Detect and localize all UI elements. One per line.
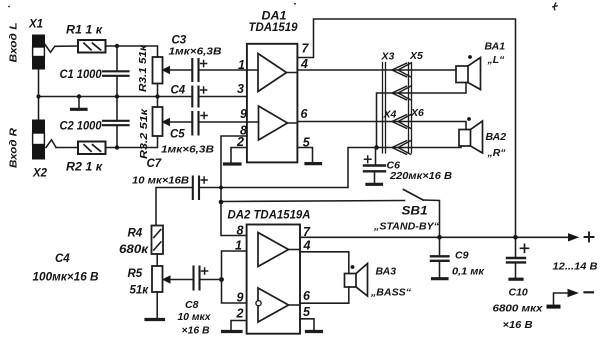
svg-text:2: 2 [236,307,244,321]
node supply vertical rail [513,235,518,240]
svg-text:С8: С8 [185,299,199,311]
resistor R1 [78,40,106,53]
DA2 pin 4 wire to BA3 [300,252,349,274]
svg-text:8: 8 [237,224,244,238]
speaker BA3 [345,264,368,297]
svg-text:С1 1000: С1 1000 [60,69,103,81]
svg-text:С9: С9 [455,250,469,262]
connector chevrons row1 X3-X5 [392,63,411,77]
svg-text:9: 9 [237,291,244,305]
node SB1 rail [437,235,442,240]
DA1 pin 2 wire [231,148,247,163]
connector chevrons row2 [392,86,411,100]
DA2 pin 7 power rail [300,236,570,238]
svg-text:10 мкх: 10 мкх [178,311,212,323]
DA2 amp triangle lower [256,288,300,322]
capacitor C10 [507,237,529,279]
svg-text:SB1: SB1 [402,206,428,218]
capacitor C9 [431,237,449,278]
wire R1 to pot top [106,46,158,57]
ground DA1 pin 2 [225,162,241,165]
svg-text:С4: С4 [55,253,70,265]
svg-text:1мк×6,3В: 1мк×6,3В [161,144,214,156]
node rail-pots [155,94,159,98]
svg-text:3: 3 [237,82,244,96]
BA1 return wire [377,83,467,148]
svg-text:R3.2 51к: R3.2 51к [138,108,150,159]
wire standby line to SB1 [221,201,405,202]
wire X2 to R2 [56,147,78,149]
svg-text:С5: С5 [170,129,185,141]
node standby junction [219,200,224,205]
svg-text:Вход L: Вход L [8,23,20,63]
DA2 amp triangle upper [258,233,300,267]
wire returns node to C7 line [199,148,377,188]
connector X1 [32,35,45,70]
svg-text:X4: X4 [383,109,397,121]
svg-text:„BASS“: „BASS“ [370,287,412,299]
node C8 to DA2 inputs [219,277,224,282]
ground R5 [146,318,164,321]
ground DA2 pin 2 [223,330,242,333]
connector X3 X4 body lines [383,63,386,154]
svg-text:R5: R5 [128,268,143,280]
svg-text:×16 В: ×16 В [503,319,533,331]
svg-text:DA1: DA1 [262,11,287,23]
capacitor C2 [103,97,129,148]
node speaker returns [374,145,379,150]
svg-text:680к: 680к [119,244,149,256]
node rail-jack [36,94,40,98]
jack column wire [38,70,40,120]
DA1 pin 6 output wire [297,122,466,130]
page speck top left [8,6,10,8]
svg-text:ВА1: ВА1 [485,41,506,53]
node rail-ground [77,94,81,98]
svg-text:X1: X1 [28,19,43,31]
op-amp U DA2 box [247,225,300,334]
svg-text:X5: X5 [409,50,423,62]
DA1 amp triangle lower [247,106,298,140]
op-amp U DA1 box [247,44,298,163]
svg-text:9: 9 [240,107,247,121]
svg-text:X6: X6 [410,107,424,119]
DA1 amp triangle upper [247,54,298,92]
svg-text:DA2 TDA1519А: DA2 TDA1519А [228,210,311,222]
capacitor C3 [192,59,247,81]
svg-text:X3: X3 [381,51,395,63]
wire X1 to R1 [55,45,78,47]
speaker BA1 [456,55,481,89]
plus symbol supply [585,233,594,242]
ground DA1 pin 5 [306,162,321,165]
DA1 pin 4 output wire [297,69,456,71]
connector chevrons row4 [392,141,411,155]
svg-text:С10: С10 [509,287,528,299]
DA2 pin 2 wire [231,321,247,331]
wire R4 to R5 [156,254,158,266]
connector chevrons row3 X4-X6 [392,115,411,129]
potentiometer R5 [152,266,193,292]
power rail arrowhead [569,234,579,241]
svg-text:„L“: „L“ [487,54,506,66]
minus terminal [547,290,594,309]
svg-text:R4: R4 [128,228,143,240]
connector X5 X6 body lines [409,63,412,154]
capacitor C1 [103,46,129,97]
svg-text:5: 5 [303,305,311,319]
svg-text:6: 6 [303,289,311,303]
node after R1 [115,44,119,48]
svg-text:С2 1000: С2 1000 [60,121,103,133]
svg-text:1мк×6,3В: 1мк×6,3В [169,46,222,58]
svg-text:6800 мкх: 6800 мкх [493,303,544,315]
svg-text:12...14 В: 12...14 В [553,261,598,273]
svg-text:R2 1 к: R2 1 к [66,162,103,174]
potentiometer R3.2 [153,97,193,137]
resistor R2 [78,142,106,155]
svg-text:4: 4 [303,239,311,253]
svg-text:4: 4 [300,57,308,71]
svg-text:1: 1 [238,58,245,72]
ground rail (mid) [39,96,193,98]
capacitor C8 [194,267,222,290]
svg-text:Вход R: Вход R [8,128,20,168]
svg-text:7: 7 [302,42,310,56]
page mark top right [553,3,557,10]
svg-text:R1 1 к: R1 1 к [66,25,103,37]
DA1 pin 8 wire [221,136,247,202]
svg-text:51к: 51к [130,285,150,297]
DA2 pin 6 wire to BA3 [300,287,349,303]
svg-text:TDA1519: TDA1519 [249,22,299,34]
resistor R4 [152,226,164,255]
svg-text:R3.1 51к: R3.1 51к [137,44,149,92]
svg-text:×16 В: ×16 В [182,325,210,337]
potentiometer R3.1 [153,57,193,97]
capacitor C4 [192,87,247,107]
node after R2 [115,145,119,149]
svg-text:ВА2: ВА2 [486,131,507,143]
wire C8 node to DA2 pins 1 and 9 [222,251,247,303]
svg-text:1: 1 [235,239,242,253]
svg-text:С7: С7 [147,158,162,170]
plug hook X1 [45,45,55,53]
BA2 return wire [377,146,462,148]
DA1 pin 5 wire [297,148,312,163]
svg-text:С4: С4 [171,85,186,97]
node C7 standby line [219,186,223,190]
node rail-C1C2 [115,94,119,98]
svg-text:ВА3: ВА3 [376,266,397,278]
plug hook X2 [46,140,56,148]
capacitor C6 [364,148,385,185]
capacitor C7 [156,177,207,226]
svg-text:220мк×16 В: 220мк×16 В [389,170,452,182]
speaker BA2 [459,117,483,153]
svg-text:X2: X2 [32,168,48,180]
wire junction down to DA2 pin 8 [221,202,247,236]
svg-text:10 мк×16В: 10 мк×16В [132,174,189,186]
connector X2 [32,120,45,160]
svg-text:6: 6 [301,107,309,121]
page speck above DA1 [294,3,296,5]
svg-text:100мк×16 В: 100мк×16 В [33,272,99,284]
switch SB1 [404,190,440,238]
capacitor C5 [192,112,247,135]
R5 ground wire [156,292,158,318]
svg-text:„STAND-BY“: „STAND-BY“ [373,221,440,233]
ground DA2 pin 5 [307,330,322,333]
ground symbol mid rail [72,97,87,110]
svg-text:„R“: „R“ [487,147,507,159]
wire R2 to pot R3.2 bottom [106,136,158,148]
DA2 pin 5 wire [300,319,314,330]
svg-text:0,1 мк: 0,1 мк [452,266,485,278]
DA1 pin 7 supply wire [297,19,515,237]
